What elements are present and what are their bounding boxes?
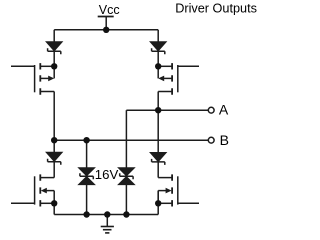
svg-text:Vcc: Vcc	[99, 3, 120, 17]
svg-text:B: B	[220, 132, 229, 148]
svg-text:Driver Outputs: Driver Outputs	[175, 2, 257, 16]
svg-text:16V: 16V	[95, 167, 119, 182]
svg-text:A: A	[219, 102, 229, 118]
